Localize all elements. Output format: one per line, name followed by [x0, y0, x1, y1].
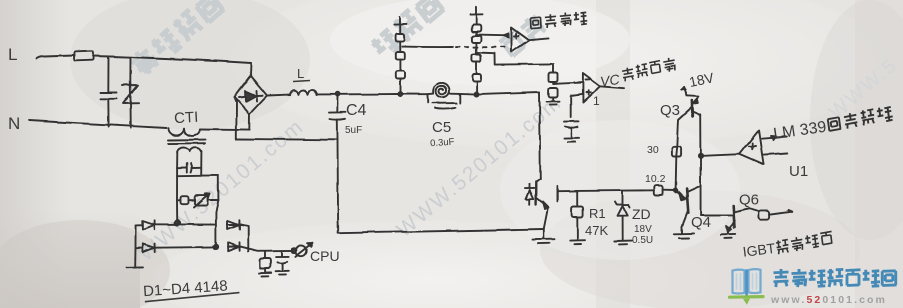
wire DC- rail: [236, 138, 337, 141]
svg-text:Q6: Q6: [739, 192, 759, 209]
op-amp U1 LM339: [703, 131, 787, 165]
svg-text:30: 30: [647, 144, 659, 156]
wire Q3 base to R3: [677, 108, 691, 148]
resistor R3 30: [672, 147, 681, 191]
label LM339 sync oscillator: [772, 106, 894, 143]
ground Q6: [720, 231, 735, 238]
logo book icon: [730, 269, 764, 305]
node U1 output junction: [698, 154, 702, 158]
svg-text:N: N: [8, 114, 20, 133]
svg-text:www.520101.com: www.520101.com: [770, 294, 887, 306]
wire rail C4 to pan-coil: [398, 93, 427, 95]
svg-text:0.3uF: 0.3uF: [430, 137, 455, 150]
label 18V supply: [688, 69, 716, 90]
capacitor CV to ground: [564, 121, 580, 142]
wire Q6 base: [701, 214, 732, 216]
wire DC+ bridge to choke: [267, 94, 290, 97]
wire Q3 collector down to U1 node: [699, 115, 701, 156]
resistor R1 47K: [572, 191, 583, 240]
logo site name 家电维修资料网: [774, 269, 897, 287]
wire CT1 secondary loop left: [176, 152, 178, 223]
watermark layer: [128, 0, 903, 266]
svg-text:Q4: Q4: [691, 214, 711, 231]
wire rail to IGBT collector: [460, 92, 540, 179]
label Q3: [660, 102, 680, 119]
schematic ink: [29, 7, 792, 277]
resistor RS (secondary network): [177, 196, 195, 204]
diode D4: [228, 242, 240, 251]
label 30: [647, 144, 659, 156]
ground ZD: [615, 241, 631, 245]
svg-text:L: L: [297, 66, 304, 81]
resistor RC (CPU net): [259, 251, 271, 276]
label CT1: [174, 109, 199, 127]
transformer CT1 primary: [168, 128, 200, 136]
svg-text:ZD: ZD: [632, 206, 651, 222]
op-amp U2 sync comparator: [512, 28, 550, 53]
svg-text:L: L: [8, 45, 17, 64]
wire DC+ rail to C4 node: [317, 93, 398, 95]
transformer CT1 secondary: [177, 147, 202, 152]
label U1: [789, 163, 808, 180]
resistor chain RA (3 resistors to top terminal): [394, 17, 407, 95]
label C4: [345, 102, 367, 136]
wire RB to VC divider: [477, 53, 552, 65]
pan coil LP (spiral): [427, 83, 460, 97]
wire bottom rail to IGBT emitter: [338, 229, 543, 233]
svg-text:10.2: 10.2: [645, 173, 666, 185]
zener ZD: [615, 191, 630, 240]
transistor V1 IGBT: [536, 179, 577, 229]
node lower row junction: [214, 245, 219, 250]
label N (line): [8, 114, 20, 133]
ground Q4: [674, 227, 694, 239]
preset RP (arrowed): [194, 194, 218, 208]
wire bridge left to DC- rail: [235, 97, 237, 139]
resistor R4 (Q6 collector): [749, 208, 792, 219]
wire gate line: [577, 189, 655, 192]
label sync circuit (同步电路): [530, 11, 587, 28]
label D1~D4 4148 with underline: [143, 277, 240, 302]
capacitor CC (CPU net): [276, 251, 289, 275]
connector to CPU (circle arrow): [295, 243, 312, 257]
label IGBT enable drive: [742, 231, 834, 259]
svg-text:18V: 18V: [634, 224, 652, 235]
node secondary to D1 row: [175, 221, 180, 226]
node C4 top junction: [336, 92, 340, 96]
capacitor C2 (line filter): [100, 57, 117, 127]
label Q6: [739, 192, 759, 209]
svg-text:U1: U1: [789, 163, 808, 180]
svg-text:47K: 47K: [585, 223, 608, 238]
wire bridge bottom to N: [248, 114, 250, 130]
node gate drive junction: [674, 189, 678, 193]
resistor chain RB (4 resistors to top terminal): [470, 7, 483, 95]
resistor RV2 with ground: [547, 88, 561, 105]
capacitor CS (across secondary): [177, 164, 201, 173]
wire RB to sync comparator + input: [476, 34, 508, 38]
wire L line: [36, 55, 251, 76]
svg-text:5uF: 5uF: [345, 125, 362, 136]
wire D3 to lower row: [241, 225, 248, 252]
resistor R2 10.2: [654, 186, 674, 195]
label Q4: [691, 214, 711, 231]
label L (choke) with underline: [293, 66, 310, 82]
diode D1: [143, 220, 155, 229]
transistor Q4: [676, 186, 701, 227]
fuse F: [74, 51, 94, 61]
svg-text:C5: C5: [432, 119, 451, 136]
label R1 47K: [585, 206, 608, 238]
wire N line: [29, 121, 249, 130]
transistor Q3: [687, 96, 700, 116]
wire VC comparator lower input: [571, 94, 583, 117]
resistor RV1: [549, 64, 558, 82]
svg-text:CTI: CTI: [174, 109, 199, 127]
logo: [730, 269, 897, 306]
node rail-RA junction: [398, 92, 402, 96]
svg-text:1: 1: [593, 94, 600, 108]
diode VD damper (inside IGBT): [525, 184, 534, 204]
node rail-RB junction: [475, 92, 479, 96]
wire secondary net down to lower row: [216, 200, 219, 247]
wire CT1 secondary loop right: [177, 152, 218, 200]
label C5: [430, 119, 455, 149]
diode D3: [228, 220, 240, 229]
node CPU tap: [292, 248, 296, 252]
ground left column: [127, 259, 143, 268]
svg-text:R1: R1: [589, 206, 606, 221]
svg-text:CPU: CPU: [310, 248, 340, 264]
logo url www.520101.com: [770, 294, 887, 306]
op-amp U3 VC comparator: [583, 74, 624, 103]
wire RV1 to VC comparator: [553, 83, 582, 85]
inductor L (choke): [290, 90, 317, 95]
label 10.2: [645, 173, 666, 185]
varistor Z: [123, 58, 139, 128]
diode D2: [143, 244, 155, 253]
supply arrow 18V: [681, 87, 687, 96]
svg-text:Q3: Q3: [660, 102, 680, 119]
wire U1 node down to Q4/Q6: [700, 156, 702, 215]
transistor Q6: [727, 206, 749, 233]
ground IGBT emitter: [533, 229, 555, 244]
wire sync sample (solid then dashed): [403, 46, 509, 49]
label VC overvoltage protection: [598, 57, 677, 89]
label ZD 18V 0.5U: [632, 206, 653, 246]
bridge rectifier BD: [235, 76, 268, 114]
label CPU: [310, 248, 340, 264]
svg-text:C4: C4: [346, 102, 367, 119]
wire D row bottom: [136, 247, 294, 251]
wire C4 node down to bottom rail: [337, 140, 340, 233]
wire D row top: [136, 223, 241, 226]
svg-text:0.5U: 0.5U: [632, 235, 653, 246]
wire left column D1-D2: [134, 225, 136, 259]
capacitor C5 (parallel): [428, 94, 461, 109]
capacitor C4: [329, 94, 346, 140]
svg-text:VC: VC: [599, 71, 621, 90]
label 1 (comparator pin): [593, 94, 600, 108]
transformer CT1 core: [168, 140, 205, 144]
label L (line): [8, 45, 17, 64]
ground R1: [570, 240, 585, 244]
